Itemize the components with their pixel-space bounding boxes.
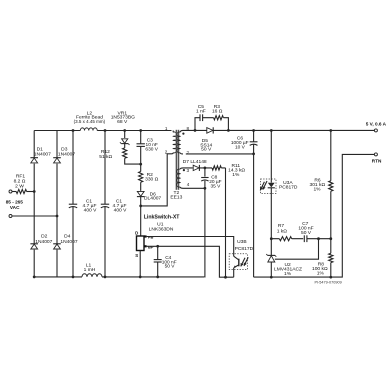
AC input terminal L [9, 190, 12, 193]
shunt regulator U2 LMV431ACZ [270, 239, 272, 255]
node: R6/R8/C7 junction [329, 237, 332, 240]
svg-text:D7 LL4148: D7 LL4148 [183, 159, 207, 165]
wire: secondary ground rail [254, 154, 375, 277]
node: emitter/R11/BP junction [224, 276, 227, 279]
resistor R3 16 ohm [214, 116, 224, 120]
resistor R6 301k 1% [330, 131, 332, 239]
svg-text:68 V: 68 V [117, 119, 128, 125]
resistor R11 14.3k 1% [205, 167, 226, 169]
svg-text:1N4007: 1N4007 [35, 239, 52, 245]
svg-text:400 V: 400 V [114, 208, 128, 214]
diode D1 1N4007 [30, 157, 38, 159]
svg-text:RTN: RTN [372, 159, 382, 164]
svg-text:BP: BP [148, 244, 154, 249]
node: U2 cathode / R7 junction [270, 237, 273, 240]
wire: AC input top lead [12, 191, 16, 193]
svg-text:VAC: VAC [10, 205, 20, 210]
capacitor C3 10nF 630V [140, 131, 142, 165]
wire: bottom rail (primary return) [34, 276, 205, 278]
node: snubber left tap [194, 129, 197, 132]
transformer T2 bias winding [177, 169, 181, 187]
resistor R2 330 ohm [140, 164, 142, 191]
node: D2 anode / rail corner [33, 276, 36, 279]
svg-text:D: D [135, 230, 138, 235]
diode D3 1N4007 [53, 157, 61, 159]
svg-text:FB: FB [148, 235, 153, 240]
wire: AC input bottom lead [12, 215, 57, 217]
svg-text:D4: D4 [64, 234, 71, 240]
snubber C5 + R3 [195, 118, 228, 131]
wire: D3 column [56, 131, 58, 277]
svg-text:2: 2 [165, 149, 168, 154]
svg-text:330 Ω: 330 Ω [145, 176, 159, 182]
wire: secondary output line through D5 [195, 129, 374, 131]
svg-text:1 kΩ: 1 kΩ [277, 228, 288, 234]
capacitor C7 100nF 50V [303, 235, 305, 242]
svg-text:PI-5479-070909: PI-5479-070909 [314, 281, 341, 285]
capacitor C2 (labeled C1) 4.7uF 400V [104, 131, 106, 277]
svg-text:50 V: 50 V [301, 230, 312, 236]
svg-text:PC817D: PC817D [235, 246, 254, 252]
wire: bias ground column down to primary rail [204, 188, 206, 277]
inductor L2 ferrite bead [80, 128, 97, 131]
wire: FB line to opto collector [147, 237, 234, 257]
svg-text:1%: 1% [284, 271, 292, 277]
U1 LinkSwitch-XT LNK363DN [137, 236, 145, 251]
svg-text:1%: 1% [313, 187, 321, 193]
secondary phase dot [182, 133, 184, 135]
svg-text:R7: R7 [278, 223, 285, 229]
optocoupler U3B PC817D transistor [229, 254, 247, 270]
svg-text:PC817D: PC817D [279, 185, 298, 191]
resistor R7 1k [271, 238, 303, 240]
diode D5 SS14 [212, 127, 214, 133]
node: ref junction [317, 237, 320, 240]
node: AC2/D3/D4 junction [56, 215, 59, 218]
capacitor C4 100nF 50V [157, 246, 159, 277]
svg-text:2 W: 2 W [15, 184, 24, 190]
svg-text:7: 7 [187, 150, 190, 155]
svg-text:EE13: EE13 [170, 194, 182, 200]
optocoupler U3A PC817D LED [261, 179, 277, 194]
transformer T2 core [175, 130, 177, 190]
resistor RF1 [16, 189, 26, 193]
svg-text:400 V: 400 V [84, 208, 98, 214]
wire: drain down to U1 [140, 206, 142, 236]
diode D7 LL4148 [183, 167, 205, 169]
svg-text:50 V: 50 V [165, 264, 176, 270]
svg-text:1N4007: 1N4007 [34, 151, 51, 157]
wire: R11 down to opto emitter node [225, 168, 227, 277]
wire: bias pin4 to ground column [183, 187, 205, 189]
svg-text:630 V: 630 V [145, 146, 158, 152]
svg-text:DL4007: DL4007 [144, 196, 161, 202]
svg-text:LinkSwitch-XT: LinkSwitch-XT [144, 214, 181, 220]
svg-text:50 V: 50 V [201, 147, 212, 153]
node: bias rectified node [204, 167, 207, 170]
svg-text:1: 1 [165, 126, 168, 131]
capacitor C8 20uF 35V [204, 168, 206, 188]
svg-text:3: 3 [187, 168, 190, 173]
svg-text:16 Ω: 16 Ω [212, 109, 223, 115]
inductor L1 1 mH [82, 274, 102, 277]
svg-text:1%: 1% [232, 172, 240, 178]
wire: top rail (rectified DC+) [34, 130, 171, 132]
output terminal RTN [374, 153, 377, 156]
node: snubber right tap [227, 129, 230, 132]
bias phase dot [183, 169, 185, 171]
node: BP/C4 junction [156, 245, 159, 248]
node: RF1/D1/D2 junction [33, 190, 36, 193]
svg-text:4: 4 [187, 182, 190, 187]
zener VR1 1N5373BG + R12 clamp branch [125, 131, 141, 165]
diode D2 1N4007 [30, 243, 38, 245]
svg-text:85 - 265: 85 - 265 [6, 200, 24, 205]
svg-text:(3.5 x 4.45 mm): (3.5 x 4.45 mm) [74, 119, 106, 124]
resistor R12 51k [123, 148, 127, 158]
svg-text:1%: 1% [317, 271, 325, 277]
svg-text:S: S [135, 253, 138, 258]
svg-text:LNK363DN: LNK363DN [149, 226, 174, 232]
svg-text:10 V: 10 V [235, 144, 246, 150]
node: drain junction [139, 205, 142, 208]
svg-text:1 mH: 1 mH [84, 267, 96, 273]
wire: secondary return down [253, 154, 255, 277]
capacitor C1 4.7uF 400V [72, 131, 74, 277]
diode D6 DL4007 [137, 196, 145, 198]
wire: transformer pin 7 return [186, 153, 254, 155]
svg-text:D2: D2 [41, 234, 48, 240]
svg-text:U3B: U3B [237, 239, 247, 245]
svg-text:1N4007: 1N4007 [60, 239, 77, 245]
transformer T2 EE13 primary winding [173, 132, 176, 153]
resistor R8 100k 1% [330, 239, 332, 277]
wire: U2 ref to divider [275, 239, 319, 260]
AC input terminal N [9, 215, 12, 218]
capacitor C6 1000uF 10V [253, 131, 255, 154]
svg-text:8: 8 [187, 126, 190, 131]
wire: D1 column [33, 131, 35, 277]
wire: BP line [147, 246, 234, 277]
svg-text:5 V, 0.6 A: 5 V, 0.6 A [366, 121, 387, 126]
svg-text:51 kΩ: 51 kΩ [99, 154, 112, 160]
wire: U1 source to rail [139, 251, 141, 277]
wire: drain node to transformer pin 2 [141, 154, 171, 206]
zener diode VR1 [121, 143, 128, 145]
svg-text:1 nF: 1 nF [196, 109, 206, 115]
diode D4 1N4007 [53, 243, 61, 245]
capacitor C5 1nF [199, 114, 201, 121]
output terminal 5V [374, 129, 377, 132]
node: pin7/C6 junction [252, 153, 255, 156]
transformer T2 secondary winding [177, 132, 180, 153]
svg-text:35 V: 35 V [210, 184, 221, 190]
